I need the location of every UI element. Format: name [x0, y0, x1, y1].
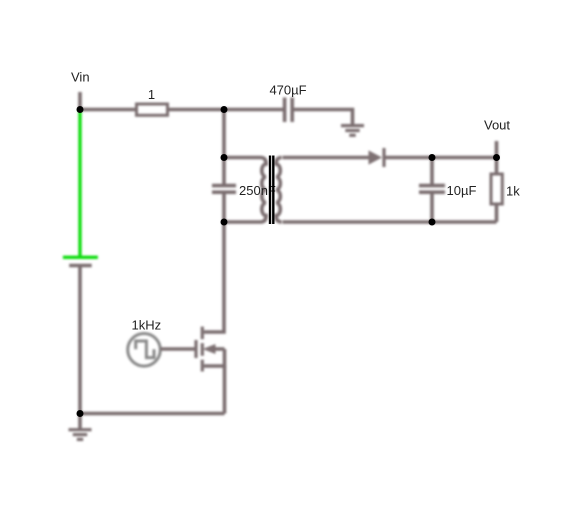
transformer T1 primary winding	[224, 158, 266, 223]
wire R2 to bottom rail	[495, 204, 499, 222]
wire node C to capacitor C1	[224, 108, 283, 112]
ground G1	[69, 414, 92, 440]
wire battery positive lead (green)	[78, 110, 81, 257]
svg-text:1: 1	[148, 87, 155, 102]
wire C3 to node H	[430, 194, 434, 222]
svg-text:1kHz: 1kHz	[132, 318, 162, 333]
wire node D to capacitor C2	[222, 158, 226, 185]
wire node to resistor R1	[80, 108, 136, 112]
node G junction	[493, 154, 500, 161]
diode D1	[369, 148, 385, 167]
capacitor C1 470uF	[285, 98, 293, 123]
svg-text:1k: 1k	[506, 184, 520, 199]
battery V1 negative plate	[69, 264, 92, 268]
node D junction	[221, 154, 228, 161]
ground G2	[341, 126, 364, 136]
wire bottom right rail	[283, 220, 497, 224]
svg-text:470µF: 470µF	[269, 83, 306, 98]
node E junction	[221, 219, 228, 226]
wire mosfet source to bottom rail	[223, 366, 227, 414]
wire Vin stub	[78, 92, 82, 110]
transformer T1 secondary winding	[276, 158, 282, 223]
capacitor C2 250nF	[212, 186, 236, 193]
wire V2 to mosfet gate	[161, 347, 197, 351]
wire bottom rail	[80, 412, 225, 416]
wire node E to mosfet drain	[204, 222, 224, 332]
node F junction	[429, 154, 436, 161]
square wave source V2 waveform glyph	[136, 341, 154, 358]
node C junction	[221, 106, 228, 113]
wire C1 to ground G2	[294, 110, 353, 126]
svg-text:10µF: 10µF	[447, 183, 477, 198]
battery V1 positive plate	[63, 256, 98, 259]
mosfet Q1 source lead	[204, 349, 225, 366]
wire node F to node G	[432, 156, 497, 160]
svg-text:Vin: Vin	[71, 70, 90, 85]
mosfet Q1 body arrow	[203, 344, 225, 354]
wire node G to resistor R2	[495, 158, 499, 175]
wire secondary top to diode D1	[283, 156, 369, 160]
transformer T1 core	[270, 156, 273, 225]
node bottom-left junction	[77, 410, 84, 417]
square wave source V2 circle	[128, 334, 161, 367]
capacitor C3 10uF	[419, 186, 445, 193]
node Vin junction	[77, 106, 84, 113]
wire node C to node D	[222, 110, 226, 158]
wire diode to node F	[386, 156, 433, 160]
svg-text:Vout: Vout	[484, 118, 510, 133]
wire battery negative to bottom	[78, 266, 82, 414]
wire R1 to node C	[168, 108, 224, 112]
resistor R1	[137, 104, 168, 115]
resistor R2 1k	[491, 174, 502, 204]
node H junction	[429, 219, 436, 226]
mosfet Q1 channel	[201, 327, 204, 372]
wire Vout stub	[495, 141, 499, 158]
wire node F to capacitor C3	[430, 158, 434, 185]
mosfet Q1 gate bar	[194, 340, 197, 358]
wire C2 to node E	[222, 194, 226, 222]
